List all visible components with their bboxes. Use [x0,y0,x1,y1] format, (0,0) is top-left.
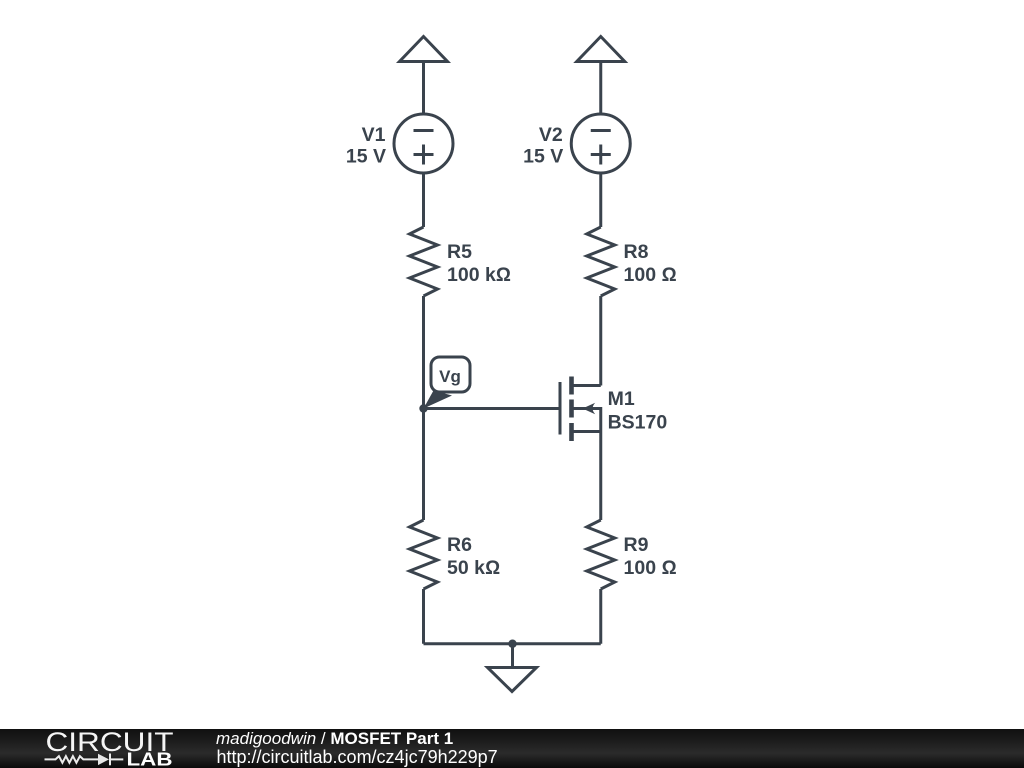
svg-text:R5: R5 [447,241,472,263]
voltage source V1 [394,114,453,173]
transistor M1 gate bar [559,382,562,435]
svg-text:V1: V1 [362,124,386,146]
svg-text:50 kΩ: 50 kΩ [447,557,500,579]
svg-text:LAB: LAB [127,749,173,768]
transistor M1 channel bar middle [569,400,574,418]
transistor M1 channel bar top [569,377,574,395]
ground rail wire [424,642,601,645]
svg-text:M1: M1 [608,388,635,410]
svg-text:15 V: 15 V [523,145,563,167]
flag Vg box [431,357,470,392]
footer bar [0,729,1024,768]
wire V1 bottom to R5 top [422,173,425,227]
transistor M1 drain lead [574,384,601,387]
wire V1 vcc to V1 top [422,62,425,115]
node Vg junction dot [419,404,427,412]
svg-text:BS170: BS170 [608,412,668,434]
transistor M1 body lead [574,409,601,521]
wire R6 bottom to ground rail [422,589,425,644]
svg-text:V2: V2 [539,124,563,146]
resistor R6 [410,520,438,589]
wire V2 vcc to V2 top [599,62,602,115]
svg-text:R9: R9 [624,534,649,556]
wire gate: node Vg to M1 gate [424,407,559,410]
ground junction dot [508,640,516,648]
transistor M1 source lead [574,430,601,433]
voltage source V2 [571,114,630,173]
footer url line [217,748,498,766]
resistor R5 [410,227,438,296]
wire V2 bottom to R8 top [599,173,602,227]
logo resistor-diode squiggle [45,754,124,766]
VCC arrow for V2 [577,37,625,62]
svg-text:R6: R6 [447,534,472,556]
footer credit line [216,730,453,747]
wire R8 bottom to M1 drain [599,296,602,386]
svg-text:Vg: Vg [439,367,461,386]
svg-text:15 V: 15 V [346,145,386,167]
svg-text:100 Ω: 100 Ω [624,264,677,286]
VCC arrow for V1 [400,37,448,62]
flag Vg pointer wedge [424,391,453,409]
wire R9 bottom to ground rail [599,589,602,644]
wire R5 bottom to R6 top (through node Vg) [422,296,425,520]
ground symbol [488,668,537,692]
transistor M1 channel bar bottom [569,423,574,441]
resistor R8 [587,227,615,296]
svg-text:100 kΩ: 100 kΩ [447,264,511,286]
ground stub wire [511,644,514,668]
transistor M1 body arrow head [583,403,596,414]
resistor R9 [587,520,615,589]
svg-text:R8: R8 [624,241,649,263]
svg-text:100 Ω: 100 Ω [624,557,677,579]
